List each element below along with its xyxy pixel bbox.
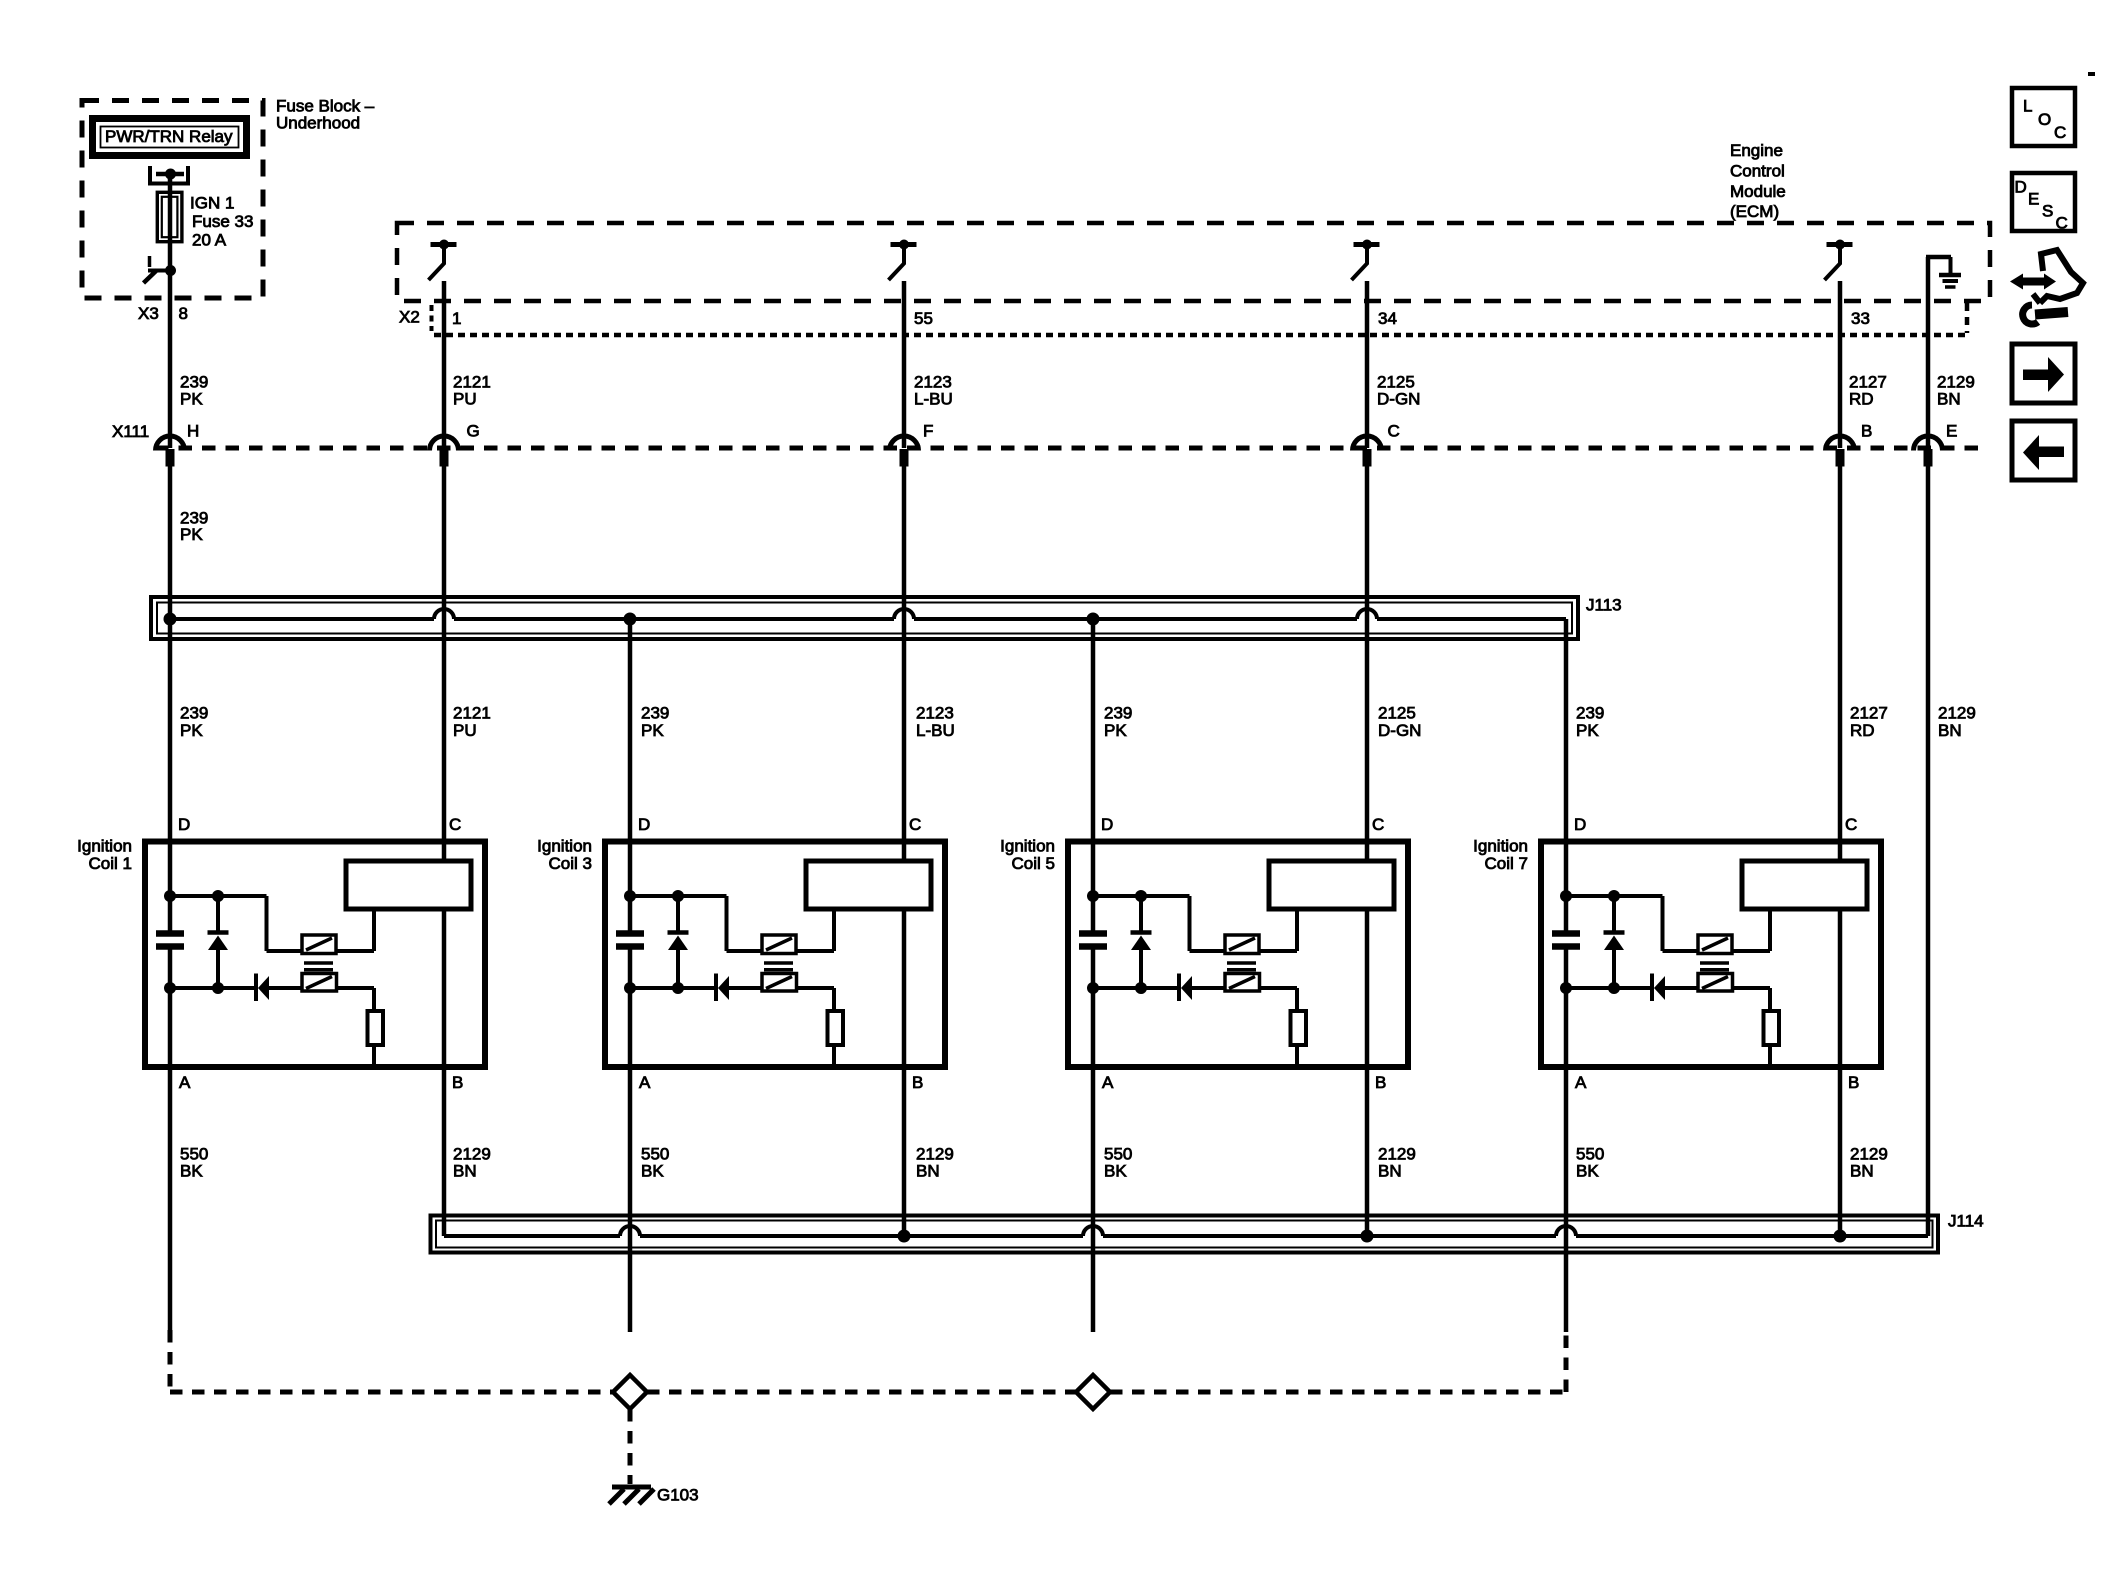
svg-text:C: C bbox=[909, 815, 921, 834]
svg-text:BN: BN bbox=[916, 1162, 940, 1181]
ignition coil 1 label bbox=[77, 837, 132, 874]
X2 right corner dashed stub bbox=[1965, 303, 1970, 333]
svg-text:Coil 5: Coil 5 bbox=[1012, 854, 1055, 873]
svg-text:Coil 1: Coil 1 bbox=[89, 854, 132, 873]
page corner mark bbox=[2088, 72, 2095, 76]
coil 1 internal top rail bbox=[170, 896, 302, 951]
wire 2125 D-GN column x=1367 bbox=[1365, 281, 1370, 448]
svg-text:G103: G103 bbox=[657, 1486, 699, 1505]
wire label 2123 L-BU row C bbox=[916, 704, 955, 741]
connector X2 label and separator bbox=[399, 305, 432, 331]
wire label 2129 BN row D bbox=[1378, 1145, 1416, 1181]
wire label 2127 RD row C bbox=[1850, 704, 1888, 741]
coil 7 isolator box lower bbox=[1698, 974, 1733, 992]
svg-text:C: C bbox=[1845, 815, 1857, 834]
svg-text:C: C bbox=[2054, 123, 2066, 142]
svg-text:D: D bbox=[638, 815, 650, 834]
coil 3 zener diode branch bbox=[668, 896, 689, 988]
X111 pin B connector symbol bbox=[1826, 422, 1873, 467]
svg-text:RD: RD bbox=[1849, 390, 1874, 409]
icon harness double arrow bbox=[2010, 274, 2056, 290]
coil 3 isolator separator bars bbox=[764, 963, 793, 970]
svg-text:239: 239 bbox=[1576, 704, 1604, 723]
wire label 2125 D-GN bbox=[1377, 373, 1420, 409]
svg-text:X2: X2 bbox=[399, 308, 420, 327]
coil 3 isolator box lower bbox=[762, 974, 797, 992]
connector X111 face dotted line bbox=[155, 446, 1988, 451]
wire 239 PK column x=1093 bbox=[1091, 619, 1096, 931]
svg-text:B: B bbox=[452, 1073, 463, 1092]
coil 1 capacitor bbox=[156, 934, 184, 947]
wire label 2121 PU row C bbox=[453, 704, 491, 741]
icon wrench bbox=[2023, 305, 2068, 324]
svg-text:PU: PU bbox=[453, 390, 477, 409]
wire 239 PK column x=630 bbox=[628, 619, 633, 931]
svg-text:H: H bbox=[187, 422, 199, 441]
coil 5 upper isolator link to secondary bbox=[1259, 909, 1297, 951]
wire 2129 BN column x=1928 bbox=[1926, 257, 1931, 448]
coil 1 pin letters A B bbox=[179, 1073, 463, 1092]
wire relay to fuse to X3-8 bbox=[168, 174, 173, 448]
wire label 239 PK row C bbox=[1576, 704, 1604, 741]
coil 5 resistor bbox=[1260, 988, 1307, 1064]
coil 7 internal top rail bbox=[1566, 896, 1698, 951]
coil 7 upper isolator link to secondary bbox=[1732, 909, 1770, 951]
svg-text:B: B bbox=[1861, 422, 1872, 441]
svg-text:20 A: 20 A bbox=[192, 231, 227, 250]
fuse label bbox=[190, 194, 253, 250]
coil 3 upper isolator link to secondary bbox=[796, 909, 834, 951]
coil 7 isolator box upper bbox=[1698, 935, 1732, 954]
wire label 239 PK row C bbox=[180, 704, 208, 741]
splice diamond S1 bbox=[613, 1375, 647, 1409]
splice pack J113 bar bbox=[151, 597, 1578, 639]
ignition coil 5 box bbox=[1068, 842, 1408, 1068]
coil 3 secondary block bbox=[806, 861, 931, 909]
relay contact upper bracket bbox=[150, 166, 188, 184]
svg-text:A: A bbox=[639, 1073, 651, 1092]
ignition coil 3 box bbox=[605, 842, 945, 1068]
svg-text:X111: X111 bbox=[112, 422, 149, 441]
wire label 2121 PU bbox=[453, 373, 491, 409]
svg-text:E: E bbox=[2028, 190, 2039, 209]
svg-text:8: 8 bbox=[179, 304, 188, 323]
wire 2123 L-BU column x=904 bbox=[902, 281, 907, 448]
coil 3 resistor bbox=[797, 988, 844, 1064]
ECM dashed box bbox=[397, 223, 1990, 301]
svg-text:L-BU: L-BU bbox=[914, 390, 953, 409]
svg-text:239: 239 bbox=[1104, 704, 1132, 723]
svg-text:2127: 2127 bbox=[1850, 704, 1888, 723]
wire label 550 BK row D bbox=[180, 1145, 208, 1181]
ground run dashed horizontal middle segment bbox=[647, 1390, 1076, 1395]
coil 1 junction dots bbox=[164, 890, 224, 994]
wire label 550 BK row D bbox=[1104, 1145, 1132, 1181]
X111 pin F connector symbol bbox=[890, 422, 934, 467]
relay contact lower (switch arm) bbox=[144, 256, 177, 283]
svg-text:L-BU: L-BU bbox=[916, 721, 955, 740]
coil 5 pin letters D C bbox=[1101, 815, 1384, 834]
svg-text:B: B bbox=[912, 1073, 923, 1092]
ground run dashed drop to G103 bbox=[628, 1409, 633, 1484]
svg-text:G: G bbox=[467, 422, 480, 441]
svg-text:BK: BK bbox=[180, 1162, 203, 1181]
icon back arrow box bbox=[2012, 421, 2075, 480]
svg-text:Ignition: Ignition bbox=[537, 837, 592, 856]
ground G103 symbol bbox=[609, 1487, 654, 1504]
svg-text:BK: BK bbox=[1576, 1162, 1599, 1181]
svg-text:J113: J113 bbox=[1586, 596, 1622, 615]
J114 bus conductor with taps bbox=[444, 1226, 1928, 1243]
svg-text:D-GN: D-GN bbox=[1377, 390, 1420, 409]
svg-text:2125: 2125 bbox=[1378, 704, 1416, 723]
relay PWR/TRN Relay box bbox=[93, 119, 247, 156]
svg-text:2129: 2129 bbox=[1938, 704, 1976, 723]
coil 3 lower rail with diode bbox=[630, 974, 762, 1002]
wire label 550 BK row D bbox=[1576, 1145, 1604, 1181]
svg-text:J114: J114 bbox=[1948, 1212, 1984, 1231]
coil 5 isolator box upper bbox=[1225, 935, 1259, 954]
svg-text:Ignition: Ignition bbox=[1000, 837, 1055, 856]
wire label 2129 BN row C bbox=[1938, 704, 1976, 741]
svg-text:C: C bbox=[2056, 214, 2068, 233]
svg-text:PWR/TRN Relay: PWR/TRN Relay bbox=[105, 127, 233, 146]
svg-text:O: O bbox=[2038, 110, 2051, 129]
svg-text:55: 55 bbox=[914, 309, 933, 328]
svg-text:BK: BK bbox=[1104, 1162, 1127, 1181]
coil 1 zener diode branch bbox=[208, 896, 229, 988]
svg-text:PK: PK bbox=[641, 721, 664, 740]
svg-text:PK: PK bbox=[1104, 721, 1127, 740]
ECM driver switch output 2 bbox=[889, 240, 917, 281]
svg-text:Engine: Engine bbox=[1730, 141, 1783, 160]
svg-text:Ignition: Ignition bbox=[1473, 837, 1528, 856]
svg-text:B: B bbox=[1375, 1073, 1386, 1092]
coil 5 internal top rail bbox=[1093, 896, 1225, 951]
svg-text:BN: BN bbox=[1850, 1162, 1874, 1181]
svg-text:S: S bbox=[2042, 202, 2053, 221]
coil 1 secondary block bbox=[346, 861, 471, 909]
icon forward arrow box bbox=[2012, 344, 2075, 403]
coil 1 isolator separator bars bbox=[304, 963, 333, 970]
svg-text:D: D bbox=[1574, 815, 1586, 834]
wire label 2127 RD bbox=[1849, 373, 1887, 409]
svg-text:34: 34 bbox=[1378, 309, 1397, 328]
wire label 2129 BN row D bbox=[453, 1145, 491, 1181]
svg-text:1: 1 bbox=[452, 309, 461, 328]
ground run dashed horizontal left segment bbox=[170, 1390, 613, 1395]
coil 3 pin letters A B bbox=[639, 1073, 923, 1092]
wire label 2125 D-GN row C bbox=[1378, 704, 1421, 741]
coil 3 isolator box upper bbox=[762, 935, 796, 954]
coil 5 lower rail with diode bbox=[1093, 974, 1225, 1002]
svg-text:X3: X3 bbox=[138, 304, 159, 323]
coil 7 junction dots bbox=[1560, 890, 1620, 994]
coil 5 zener diode branch bbox=[1131, 896, 1152, 988]
wire label 239 PK (X111 to J113) bbox=[180, 509, 208, 545]
fuse block underhood dashed box bbox=[82, 101, 263, 299]
coil 1 pin letters D C bbox=[178, 815, 461, 834]
coil 7 isolator separator bars bbox=[1700, 963, 1729, 970]
coil 7 pin letters A B bbox=[1575, 1073, 1859, 1092]
svg-text:BN: BN bbox=[1938, 721, 1962, 740]
coil 5 junction dots bbox=[1087, 890, 1147, 994]
svg-text:IGN 1: IGN 1 bbox=[190, 194, 234, 213]
fuse IGN 1 Fuse 33 20 A symbol bbox=[157, 192, 182, 241]
J113 bus conductor with taps bbox=[164, 609, 1567, 626]
svg-text:Module: Module bbox=[1730, 182, 1786, 201]
ECM label Engine Control Module (ECM) bbox=[1730, 141, 1786, 221]
svg-text:PK: PK bbox=[180, 390, 203, 409]
svg-text:D: D bbox=[178, 815, 190, 834]
splice pack J114 bar bbox=[431, 1216, 1939, 1253]
svg-text:BN: BN bbox=[1378, 1162, 1402, 1181]
svg-text:BK: BK bbox=[641, 1162, 664, 1181]
coil 7 secondary block bbox=[1742, 861, 1867, 909]
svg-text:A: A bbox=[1102, 1073, 1114, 1092]
ignition coil 7 box bbox=[1541, 842, 1881, 1068]
ignition coil 5 label bbox=[1000, 837, 1055, 874]
ECM driver switch output 4 bbox=[1825, 240, 1853, 281]
wire 239 PK column x=170 bbox=[166, 449, 175, 466]
svg-text:PK: PK bbox=[1576, 721, 1599, 740]
X111 pin E connector symbol bbox=[1914, 422, 1958, 467]
fuse block label "Fuse Block - Underhood" bbox=[276, 97, 375, 133]
ground run dashed horizontal right segment bbox=[1110, 1390, 1566, 1395]
svg-text:BN: BN bbox=[1937, 390, 1961, 409]
ignition coil 7 label bbox=[1473, 837, 1528, 874]
coil 3 capacitor bbox=[616, 934, 644, 947]
ignition coil 1 box bbox=[145, 842, 485, 1068]
wire label 550 BK row D bbox=[641, 1145, 669, 1181]
connector X3 pin 8 labels bbox=[138, 304, 188, 323]
svg-text:(ECM): (ECM) bbox=[1730, 202, 1779, 221]
wire label 2129 BN row D bbox=[916, 1145, 954, 1181]
coil 7 lower rail with diode bbox=[1566, 974, 1698, 1002]
svg-text:A: A bbox=[1575, 1073, 1587, 1092]
svg-text:L: L bbox=[2023, 97, 2032, 116]
svg-text:239: 239 bbox=[641, 704, 669, 723]
X111 pin G connector symbol bbox=[430, 422, 480, 467]
svg-text:2121: 2121 bbox=[453, 704, 491, 723]
coil 7 pin letters D C bbox=[1574, 815, 1857, 834]
wire label 2123 L-BU bbox=[914, 373, 953, 409]
svg-text:B: B bbox=[1848, 1073, 1859, 1092]
X2 pin numbers 1 55 34 33 bbox=[452, 309, 1870, 328]
coil 1 upper isolator link to secondary bbox=[336, 909, 374, 951]
svg-text:PK: PK bbox=[180, 721, 203, 740]
X111 pin C connector symbol bbox=[1353, 422, 1400, 467]
coil 7 zener diode branch bbox=[1604, 896, 1625, 988]
coil 3 internal top rail bbox=[630, 896, 762, 951]
wire label 2129 BN row D bbox=[1850, 1145, 1888, 1181]
icon DESC box bbox=[2012, 173, 2075, 233]
svg-text:C: C bbox=[449, 815, 461, 834]
wire 239 PK column x=1566 bbox=[1564, 619, 1569, 931]
svg-text:Control: Control bbox=[1730, 162, 1785, 181]
ECM internal ground symbol bbox=[1926, 257, 1961, 287]
coil 3 junction dots bbox=[624, 890, 684, 994]
svg-text:C: C bbox=[1388, 422, 1400, 441]
svg-text:RD: RD bbox=[1850, 721, 1875, 740]
ground run dashed left riser x=170 bbox=[168, 1330, 173, 1392]
svg-text:D: D bbox=[1101, 815, 1113, 834]
ECM driver switch output 3 bbox=[1352, 240, 1380, 281]
coil 5 pin letters A B bbox=[1102, 1073, 1386, 1092]
wire 2121 PU column x=444 bbox=[442, 281, 447, 448]
svg-text:Ignition: Ignition bbox=[77, 837, 132, 856]
ground run dashed right riser x=1566 bbox=[1564, 1332, 1569, 1392]
coil 7 resistor bbox=[1733, 988, 1780, 1064]
coil 3 pin letters D C bbox=[638, 815, 921, 834]
svg-text:33: 33 bbox=[1851, 309, 1870, 328]
wire label 2129 BN bbox=[1937, 373, 1975, 409]
svg-text:Fuse 33: Fuse 33 bbox=[192, 212, 253, 231]
splice diamond S2 bbox=[1076, 1375, 1110, 1409]
coil 1 resistor bbox=[337, 988, 384, 1064]
svg-text:2123: 2123 bbox=[916, 704, 954, 723]
coil 5 capacitor bbox=[1079, 934, 1107, 947]
svg-text:E: E bbox=[1946, 422, 1957, 441]
connector X2 face dotted line bbox=[434, 333, 1967, 338]
svg-text:D-GN: D-GN bbox=[1378, 721, 1421, 740]
relay moving contact bar + pivot bbox=[156, 169, 184, 180]
ignition coil 3 label bbox=[537, 837, 592, 874]
wire label 239 PK (fuse output) bbox=[180, 373, 208, 409]
svg-text:PU: PU bbox=[453, 721, 477, 740]
wire label 239 PK row C bbox=[1104, 704, 1132, 741]
svg-text:Underhood: Underhood bbox=[276, 114, 360, 133]
coil 1 isolator box lower bbox=[302, 974, 337, 992]
svg-text:C: C bbox=[1372, 815, 1384, 834]
X111 pin H connector symbol bbox=[156, 422, 200, 467]
svg-text:D: D bbox=[2015, 178, 2027, 197]
svg-text:Coil 3: Coil 3 bbox=[549, 854, 592, 873]
icon LOC box bbox=[2012, 88, 2075, 146]
ECM driver switch output 1 bbox=[429, 240, 457, 281]
coil 5 isolator separator bars bbox=[1227, 963, 1256, 970]
svg-text:BN: BN bbox=[453, 1162, 477, 1181]
coil 1 lower rail with diode bbox=[170, 974, 302, 1002]
wire label 239 PK row C bbox=[641, 704, 669, 741]
icon harness connector outline bbox=[2033, 250, 2083, 303]
svg-text:A: A bbox=[179, 1073, 191, 1092]
svg-text:Coil 7: Coil 7 bbox=[1485, 854, 1528, 873]
coil 1 isolator box upper bbox=[302, 935, 336, 954]
svg-text:239: 239 bbox=[180, 704, 208, 723]
coil 5 isolator box lower bbox=[1225, 974, 1260, 992]
wire 2127 RD column x=1840 bbox=[1838, 281, 1843, 448]
coil 5 secondary block bbox=[1269, 861, 1394, 909]
svg-text:PK: PK bbox=[180, 525, 203, 544]
coil 7 capacitor bbox=[1552, 934, 1580, 947]
svg-text:F: F bbox=[923, 422, 933, 441]
